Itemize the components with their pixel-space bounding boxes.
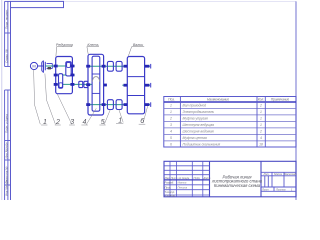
label Reduktor — [56, 43, 73, 57]
table row 6: Mufta tsepnaya — [170, 136, 262, 140]
title block left columns — [170, 161, 203, 197]
svg-text:Инв.№подл: Инв.№подл — [4, 180, 8, 196]
outer sheet edge left — [1, 0, 3, 200]
svg-text:Шестерня ведущая: Шестерня ведущая — [183, 123, 215, 127]
svg-text:4: 4 — [260, 136, 262, 140]
svg-text:Кол.: Кол. — [258, 98, 264, 102]
bearing valki lower right — [145, 103, 150, 106]
stand upper shaft (teal) — [89, 65, 128, 67]
valki middle left stub (teal) — [122, 84, 127, 86]
position number 7 — [116, 117, 123, 124]
stand middle right stub (teal) — [104, 84, 107, 86]
chain coupling lower half 1 — [107, 100, 113, 110]
gear stage 1 pinion — [67, 63, 71, 68]
top-left stamp box (grafa 26) — [11, 1, 64, 7]
svg-text:Дата: Дата — [203, 176, 211, 180]
svg-text:Муфта цепная: Муфта цепная — [183, 136, 207, 140]
coupling reducer-to-stand half 1 — [79, 81, 83, 87]
bearing stand lower right — [102, 103, 106, 106]
svg-text:Иванов: Иванов — [178, 181, 187, 185]
sheet background — [0, 0, 300, 200]
output shaft (teal) — [54, 83, 92, 85]
label Valki — [128, 43, 144, 57]
coupling reducer-to-stand half 2 — [84, 81, 88, 87]
svg-text:2: 2 — [169, 117, 172, 121]
position number 6 — [139, 118, 146, 125]
chain coupling lower half 2 — [116, 100, 122, 110]
title block right section lines — [261, 172, 296, 191]
title block main vertical dividers — [210, 161, 262, 197]
svg-text:Шестерня ведомая: Шестерня ведомая — [183, 130, 214, 134]
bearing reducer out left — [54, 83, 58, 86]
svg-text:2: 2 — [259, 104, 262, 108]
intermediate shaft (teal) — [54, 74, 74, 76]
valki right stub lower (teal) — [145, 104, 150, 106]
stand upper gear bottom line — [92, 73, 100, 75]
title block bottom right: List / Listov — [261, 187, 293, 191]
valki right stub end tick lower — [150, 102, 152, 107]
svg-text:1: 1 — [170, 104, 172, 108]
position leader 7 — [119, 110, 123, 123]
roll divider upper — [127, 76, 144, 78]
svg-text:Инв.№дубл: Инв.№дубл — [4, 142, 8, 158]
electric motor M — [30, 62, 37, 69]
title block signature smudges — [178, 181, 188, 190]
position leader 4 — [86, 108, 96, 125]
valki right stub middle (teal) — [145, 84, 150, 86]
input shaft (teal) — [45, 65, 74, 67]
svg-text:Перв. примен.: Перв. примен. — [4, 9, 8, 29]
svg-text:4: 4 — [170, 130, 172, 134]
position number 2 — [55, 119, 61, 126]
svg-text:Листов: Листов — [275, 187, 286, 191]
bearing valki mid right — [145, 84, 150, 87]
title block header row line (thick) — [164, 179, 210, 181]
bearing reducer input left — [54, 65, 58, 68]
title block left horizontal rows — [164, 166, 210, 195]
svg-text:6: 6 — [170, 143, 172, 147]
gear stage 2 pinion — [59, 83, 62, 88]
chevron gear arc — [92, 77, 99, 82]
table outer border — [164, 97, 296, 148]
svg-text:Клеть: Клеть — [87, 43, 98, 47]
chain coupling upper half 2 — [116, 61, 122, 71]
table header text — [168, 97, 289, 101]
gear stand housing (klet) — [88, 54, 104, 115]
table row 2: Elektrodvigatel — [170, 110, 262, 114]
title block header text row: Izm List No dokum Podp Data — [165, 176, 211, 180]
svg-text:Вал приводной: Вал приводной — [183, 104, 207, 108]
bearing stand mid left — [86, 83, 90, 86]
reducer housing — [56, 57, 73, 94]
bearing valki upper left — [124, 65, 128, 68]
bearing stand upper right — [102, 65, 106, 68]
frame top line — [64, 0, 296, 2]
position leader 1 — [34, 70, 41, 125]
table row 4: Shesternya vedushchaya — [170, 123, 262, 127]
title block main name text: Rabochaya liniya listoprokatnogo stana. Kinematicheskaya skhema — [211, 174, 263, 188]
svg-text:Т.контр.: Т.контр. — [165, 190, 176, 194]
table row 5: Shesternya vedomaya — [170, 130, 262, 134]
svg-text:Петров: Петров — [178, 185, 188, 189]
svg-text:5: 5 — [170, 136, 172, 140]
gear stage 2 wheel — [59, 74, 63, 89]
svg-text:Изм: Изм — [165, 176, 170, 180]
position number 5 — [99, 119, 105, 126]
svg-text:Муфта упругая: Муфта упругая — [183, 117, 209, 121]
label Klet — [87, 43, 99, 54]
svg-text:1: 1 — [260, 123, 262, 127]
stand lower gear top line — [92, 92, 100, 94]
position leader 2 — [45, 74, 56, 125]
title block outer border — [164, 161, 296, 197]
bearing stand mid right stub — [104, 84, 107, 87]
left margin column lines block 2 — [5, 90, 11, 200]
svg-text:Пров.: Пров. — [165, 185, 172, 189]
table header separator (thick) — [164, 101, 296, 103]
position leader 5 — [104, 110, 110, 125]
position leader 6 — [143, 106, 148, 123]
left margin column lines block 1 — [5, 1, 11, 66]
bearing valki lower left — [124, 103, 128, 106]
svg-text:Масса: Масса — [274, 172, 282, 176]
svg-text:Валки: Валки — [133, 43, 143, 47]
roll divider lower — [127, 95, 144, 97]
svg-text:Лист: Лист — [170, 176, 179, 180]
svg-text:Наименование: Наименование — [207, 98, 229, 102]
frame right line — [295, 1, 297, 200]
bearing reducer input right — [70, 65, 74, 68]
svg-text:Н.контр.: Н.контр. — [165, 194, 176, 198]
svg-text:Разраб.: Разраб. — [165, 181, 175, 185]
brake drum half-coupling — [47, 64, 53, 70]
table row 7: Podshipnik skolzheniya — [170, 143, 263, 147]
svg-text:3: 3 — [170, 123, 172, 127]
svg-text:Подшипник скольжения: Подшипник скольжения — [183, 143, 221, 147]
table row lines — [164, 108, 296, 140]
svg-text:Лит.: Лит. — [262, 172, 269, 176]
gear stage 1 wheel — [66, 62, 71, 76]
position number 1 — [41, 119, 47, 126]
bearing stand lower left — [86, 103, 90, 106]
valki right stub end tick upper — [150, 64, 152, 69]
bearing stand upper left — [86, 65, 90, 68]
bearing valki upper right — [145, 65, 150, 68]
position number 4 — [81, 119, 88, 126]
svg-text:Лист: Лист — [261, 187, 270, 191]
svg-text:Подп. и дата: Подп. и дата — [4, 114, 8, 133]
svg-text:18: 18 — [259, 143, 263, 147]
elastic coupling (mufta uprugaya) — [41, 61, 45, 73]
motor shaft — [38, 65, 43, 67]
stand gear column — [92, 56, 100, 111]
svg-text:Редуктор: Редуктор — [56, 43, 73, 47]
svg-text:Масштаб: Масштаб — [284, 172, 297, 176]
chain coupling upper half 1 — [107, 61, 113, 71]
table column lines — [180, 97, 265, 148]
valki right stub upper (teal) — [145, 65, 150, 67]
title block row labels: Razrab / Prov / T.kontr / N.kontr / Utv — [165, 181, 176, 198]
valki right stub end tick middle — [150, 83, 152, 88]
svg-text:Справ. №: Справ. № — [4, 49, 8, 63]
position number 3 — [69, 119, 75, 126]
svg-text:Подп.: Подп. — [194, 176, 201, 180]
bearing reducer mid left — [54, 74, 58, 77]
svg-text:Поз.: Поз. — [168, 97, 175, 101]
stand lower shaft (teal) — [89, 104, 128, 106]
svg-text:1: 1 — [170, 110, 172, 114]
bearing valki mid left — [124, 84, 128, 87]
roll stand housing (valki) — [127, 57, 144, 114]
svg-text:М: М — [32, 64, 35, 69]
frame left line — [10, 1, 12, 200]
svg-text:2: 2 — [259, 130, 262, 134]
svg-text:1: 1 — [260, 110, 262, 114]
svg-text:Электродвигатель: Электродвигатель — [183, 110, 215, 114]
title block right header: Lit Massa Masshtab — [262, 172, 296, 176]
bearing reducer mid right — [70, 74, 74, 77]
position leader 3 — [57, 94, 72, 124]
table row 1: Val privodnoy — [170, 104, 262, 108]
table row 3: Mufta uprugaya — [169, 117, 262, 121]
svg-text:№ докум.: № докум. — [179, 176, 191, 180]
svg-text:Кинематическая схема: Кинематическая схема — [214, 183, 261, 188]
svg-text:1: 1 — [260, 117, 262, 121]
bearing reducer out right — [70, 83, 74, 86]
svg-text:Примечание: Примечание — [271, 98, 290, 102]
